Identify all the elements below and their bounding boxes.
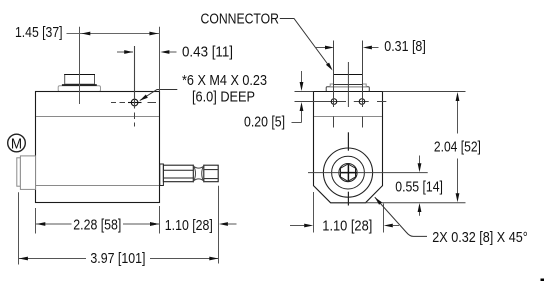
svg-text:[6.0] DEEP: [6.0] DEEP (192, 88, 255, 105)
svg-text:*6 X M4 X 0.23: *6 X M4 X 0.23 (182, 72, 267, 89)
svg-text:M: M (11, 135, 22, 152)
svg-text:0.43 [11]: 0.43 [11] (182, 43, 233, 60)
svg-text:2.28 [58]: 2.28 [58] (73, 217, 121, 234)
svg-text:0.20 [5]: 0.20 [5] (244, 114, 285, 131)
svg-text:1.10 [28]: 1.10 [28] (165, 217, 213, 234)
svg-text:0.55 [14]: 0.55 [14] (395, 179, 443, 196)
svg-text:2.04 [52]: 2.04 [52] (434, 139, 481, 156)
svg-text:0.31 [8]: 0.31 [8] (384, 38, 426, 55)
svg-text:1.45 [37]: 1.45 [37] (15, 24, 63, 41)
svg-text:3.97 [101]: 3.97 [101] (90, 250, 145, 267)
svg-text:CONNECTOR: CONNECTOR (201, 11, 280, 28)
svg-text:1.10 [28]: 1.10 [28] (322, 218, 372, 235)
svg-text:2X 0.32 [8] X 45°: 2X 0.32 [8] X 45° (432, 229, 528, 246)
